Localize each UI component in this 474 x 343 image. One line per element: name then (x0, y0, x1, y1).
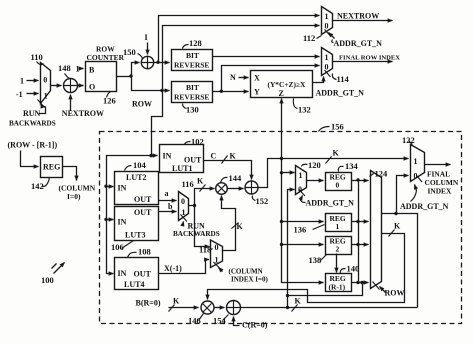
label RUN BACKWARDS (mux 110 select) (9, 100, 56, 128)
svg-text:1: 1 (44, 92, 48, 101)
label 106 (111, 241, 134, 253)
svg-text:0: 0 (325, 63, 329, 72)
wire mux120 to REG0 (307, 180, 324, 182)
svg-text:REVERSE: REVERSE (174, 61, 209, 70)
wire to mux112 input 0 (ROW) (160, 26, 319, 93)
label 118 (199, 245, 213, 255)
svg-text:(R-1): (R-1) (329, 283, 346, 292)
mux 114 (322, 48, 333, 78)
svg-text:LUT1: LUT1 (172, 164, 192, 173)
svg-text:1: 1 (325, 53, 329, 62)
svg-text:106: 106 (111, 242, 124, 252)
label ADDR_GT_N (mux120) (301, 199, 355, 208)
wire ROW to LUT1 IN (149, 154, 157, 157)
svg-text:128: 128 (189, 38, 202, 48)
wire REG1 out to mux124 (352, 220, 369, 223)
wire K loop from mux124 to multiplier 146 (208, 222, 405, 303)
label 132 (293, 99, 310, 115)
wire to REG2 input (282, 244, 324, 246)
mux 112 (322, 7, 333, 37)
svg-text:1: 1 (20, 77, 24, 86)
wire adder 152 out K to mux 122 (258, 149, 409, 188)
label 112 (303, 33, 322, 43)
svg-text:0: 0 (298, 185, 302, 194)
svg-text:REVERSE: REVERSE (174, 93, 209, 102)
svg-text:140: 140 (347, 264, 360, 274)
svg-text:1: 1 (414, 157, 418, 166)
label ADDR_GT_N (mux122) (400, 191, 449, 212)
svg-text:1: 1 (299, 171, 303, 180)
comparator output to mux 114 select (313, 77, 324, 83)
svg-text:(COLUMN: (COLUMN (229, 268, 263, 276)
svg-text:C(R=0): C(R=0) (242, 321, 268, 330)
wire bit reverse 128 to mux 114 input 1 (213, 56, 320, 58)
mux 124 select ROW (380, 287, 405, 298)
svg-text:0: 0 (414, 172, 418, 181)
svg-text:1: 1 (76, 65, 80, 74)
wire REG142 out to COLUMN I=0 (59, 167, 96, 202)
svg-text:LUT3: LUT3 (125, 231, 145, 240)
svg-text:ROW: ROW (385, 289, 405, 298)
svg-text:K: K (333, 149, 340, 158)
mux 122 (411, 145, 425, 183)
svg-text:IN: IN (118, 218, 127, 227)
svg-text:K: K (173, 297, 180, 306)
label 122 (402, 135, 415, 145)
label 128 (183, 38, 202, 49)
label 120 (302, 160, 321, 170)
wire to REG1 input (282, 221, 324, 223)
svg-text:OUT: OUT (134, 270, 152, 279)
svg-text:I=0): I=0) (67, 192, 81, 201)
wire REG0 out to mux124 (352, 178, 369, 181)
wire REG2 to REG R-1 chain (336, 254, 338, 273)
wire mux110 to adder148 (51, 85, 62, 87)
svg-text:124: 124 (375, 169, 389, 179)
bit reverse 128 (172, 50, 213, 71)
svg-text:X: X (254, 74, 260, 83)
label 150 (123, 47, 143, 59)
label ADDR_GT_N (mux112) (332, 39, 382, 48)
svg-text:138: 138 (309, 255, 322, 265)
multiplier 144 (216, 183, 228, 195)
svg-text:a: a (165, 189, 169, 198)
svg-text:b: b (168, 202, 173, 211)
adder 150 (141, 56, 153, 68)
wire adder148 to counter O (78, 85, 84, 87)
wire bit reverse 130 output to comparator Y (213, 90, 249, 93)
svg-text:0: 0 (181, 197, 185, 206)
label 102 (185, 137, 204, 147)
wire REG2 out to mux124 (352, 243, 369, 246)
svg-text:K: K (197, 177, 204, 186)
input 1 (20, 77, 39, 86)
wire multiplier146 to adder 154 (214, 307, 225, 309)
register REG 142 outside (8, 141, 63, 178)
NEXTROW input to adder 148 (62, 95, 104, 119)
LUT2 box 104 (115, 172, 159, 205)
wire mux124 out to mux122 input 0 (382, 176, 409, 216)
label 104 (125, 160, 147, 171)
comparator box 132 (251, 71, 313, 99)
svg-text:K: K (237, 222, 244, 231)
wire LUT3 out b to mux116 (159, 202, 177, 212)
mux 110 (41, 63, 51, 104)
adder 148 (64, 79, 78, 93)
wire mux118 out to multiplier 144 (222, 196, 244, 251)
dashed box 156 (100, 132, 462, 324)
svg-text:114: 114 (337, 74, 350, 84)
REG 2 box 138 (326, 237, 352, 255)
output NEXTROW (333, 12, 393, 21)
svg-text:(ROW - [R-1]): (ROW - [R-1]) (8, 141, 58, 150)
wire to mux112 input 1 (159, 16, 320, 63)
svg-text:NEXTROW: NEXTROW (62, 109, 104, 118)
svg-text:156: 156 (331, 122, 344, 132)
svg-text:IN: IN (118, 269, 127, 278)
output FINAL ROW INDEX (333, 55, 401, 62)
svg-text:2: 2 (336, 245, 340, 254)
wire mux116 out to multiplier 144 (189, 177, 215, 208)
wire LUT4 out X(-1) to mux118 input 1 (159, 260, 210, 274)
svg-text:-1: -1 (16, 90, 23, 99)
wire mux124 out feedback right loop (397, 214, 418, 308)
input N (230, 73, 249, 82)
adder 152 (245, 181, 259, 195)
LUT4 box 108 (115, 258, 159, 290)
svg-text:I: I (145, 33, 148, 42)
svg-text:N: N (230, 73, 236, 82)
wire LUT1 out C K to adder 152 (204, 152, 252, 180)
svg-text:104: 104 (133, 160, 147, 170)
svg-text:1: 1 (215, 256, 219, 265)
svg-text:ADDR_GT_N: ADDR_GT_N (400, 202, 449, 211)
label 144 (221, 173, 243, 183)
ROW COUNTER box 126 (86, 45, 125, 92)
svg-text:C: C (211, 152, 217, 161)
wire to mux120 input 1 (282, 172, 295, 174)
multiplier 146 (201, 301, 214, 314)
svg-text:130: 130 (186, 105, 199, 115)
label 146 (188, 314, 204, 326)
svg-text:Y: Y (254, 88, 260, 97)
label RUN BACKWARDS (mux116 select) (173, 222, 220, 239)
wire register output bus (358, 181, 360, 283)
svg-text:X(-1): X(-1) (164, 264, 182, 273)
svg-text:0: 0 (325, 22, 329, 31)
wire adder154 output K feedback (241, 297, 418, 312)
svg-text:BACKWARDS: BACKWARDS (9, 120, 56, 128)
svg-text:136: 136 (294, 225, 307, 235)
svg-text:134: 134 (345, 161, 359, 171)
svg-text:118: 118 (199, 245, 211, 255)
output FINAL COLUMN INDEX (425, 165, 459, 196)
label 100 with arrow (41, 263, 65, 286)
svg-text:102: 102 (191, 137, 204, 147)
svg-text:1: 1 (336, 222, 340, 231)
svg-text:INDEX: INDEX (428, 187, 452, 196)
input -1 (16, 90, 39, 99)
label 124 (370, 169, 389, 179)
svg-text:NEXTROW: NEXTROW (337, 12, 379, 21)
input C(R=0) to adder 154 (234, 317, 268, 330)
svg-text:0: 0 (336, 181, 340, 190)
wire ROW feed to LUT2 LUT3 LUT4 (104, 156, 151, 274)
svg-text:110: 110 (31, 52, 43, 62)
wire REG R-1 out to mux124 (352, 281, 369, 284)
svg-text:112: 112 (303, 33, 315, 43)
svg-text:ADDR_GT_N: ADDR_GT_N (334, 39, 383, 48)
wire counter output junction (117, 63, 170, 91)
label 154 (213, 315, 229, 326)
svg-text:OUT: OUT (134, 208, 152, 217)
label COLUMN INDEX I=0 (mux118 select) (219, 268, 269, 284)
svg-text:1: 1 (182, 208, 186, 217)
svg-text:IN: IN (118, 184, 127, 193)
svg-text:152: 152 (256, 196, 269, 206)
LUT1 box 102 (160, 145, 204, 173)
svg-text:B(R=0): B(R=0) (136, 299, 161, 308)
LUT3 box 106 (115, 207, 159, 241)
label 140 (340, 264, 359, 274)
label 114 (332, 74, 349, 85)
label 142 (31, 178, 50, 192)
mux 116 (179, 192, 189, 222)
svg-text:LUT4: LUT4 (124, 280, 144, 289)
mux 122 select (415, 185, 417, 191)
svg-text:ADDR_GT_N: ADDR_GT_N (306, 199, 355, 208)
label 130 (183, 104, 199, 115)
svg-text:126: 126 (103, 96, 116, 106)
svg-text:(Y*C+Z)≥X: (Y*C+Z)≥X (268, 80, 306, 89)
wire to mux 114 input 0 (222, 66, 320, 92)
svg-text:ADDR_GT_N: ADDR_GT_N (316, 89, 365, 98)
mux 120 (296, 166, 307, 197)
svg-text:Z: Z (279, 89, 284, 98)
mux 118 (211, 240, 223, 269)
mux 124 (371, 171, 382, 289)
svg-text:INDEX I=0): INDEX I=0) (231, 276, 269, 284)
svg-text:OUT: OUT (134, 195, 152, 204)
svg-text:108: 108 (138, 247, 151, 257)
label 134 (338, 161, 358, 172)
wire Z input vertical (281, 99, 283, 159)
input 1 to B (76, 65, 84, 74)
wire mux120 input 0 (288, 190, 295, 308)
wire REG R-1 output feedback to column bus (286, 281, 364, 298)
wire adder150 to bit reverse 128 (154, 61, 170, 64)
svg-text:FINAL ROW INDEX: FINAL ROW INDEX (339, 55, 400, 62)
svg-text:RUN: RUN (23, 109, 41, 118)
mux 120 select (301, 196, 303, 200)
svg-text:O: O (89, 83, 95, 92)
svg-text:132: 132 (298, 105, 311, 115)
svg-text:K: K (295, 297, 302, 306)
svg-text:B: B (89, 66, 95, 75)
REG 0 box 134 (326, 173, 352, 191)
svg-text:BIT: BIT (186, 83, 199, 92)
label 138 (309, 255, 327, 266)
REG 1 box 136 (326, 214, 352, 232)
svg-text:0: 0 (215, 243, 219, 252)
wire K bus down the registers (280, 159, 324, 283)
label 136 (294, 225, 325, 235)
svg-text:ROW: ROW (132, 100, 152, 109)
svg-text:LUT2: LUT2 (126, 173, 146, 182)
svg-text:BACKWARDS: BACKWARDS (173, 230, 220, 238)
svg-text:BIT: BIT (186, 51, 199, 60)
svg-text:116: 116 (182, 179, 194, 189)
svg-text:120: 120 (308, 160, 321, 170)
svg-text:150: 150 (123, 47, 136, 57)
label 156 (319, 122, 344, 132)
svg-text:REG: REG (43, 163, 60, 172)
label 148 (58, 63, 71, 79)
svg-text:0: 0 (43, 76, 47, 85)
wire multiplier144 to adder 152 (228, 188, 244, 190)
svg-text:148: 148 (58, 63, 71, 73)
label 108 (128, 247, 151, 258)
wire LUT2 out a to mux116 (159, 189, 177, 201)
svg-text:154: 154 (213, 316, 227, 326)
label 110 (31, 52, 44, 65)
input I to adder 150 (145, 33, 148, 55)
svg-text:K: K (394, 222, 401, 231)
svg-text:IN: IN (163, 152, 172, 161)
wire branch to mux118 input 0 (195, 206, 210, 247)
mux 112 select arrow (329, 33, 335, 39)
svg-text:122: 122 (402, 135, 415, 145)
svg-text:1: 1 (325, 12, 329, 21)
REG R-1 box 140 (326, 274, 352, 292)
label 152 (252, 196, 268, 207)
adder 154 (227, 301, 241, 315)
svg-text:100: 100 (41, 275, 54, 285)
label 126 (103, 92, 116, 106)
svg-text:144: 144 (229, 173, 243, 183)
bit reverse 130 (172, 82, 213, 103)
wire B(R=0) to multiplier 146 (136, 297, 199, 312)
wire ROW down into dashed box (152, 91, 163, 156)
svg-text:K: K (230, 152, 237, 161)
svg-text:COUNTER: COUNTER (87, 53, 125, 62)
